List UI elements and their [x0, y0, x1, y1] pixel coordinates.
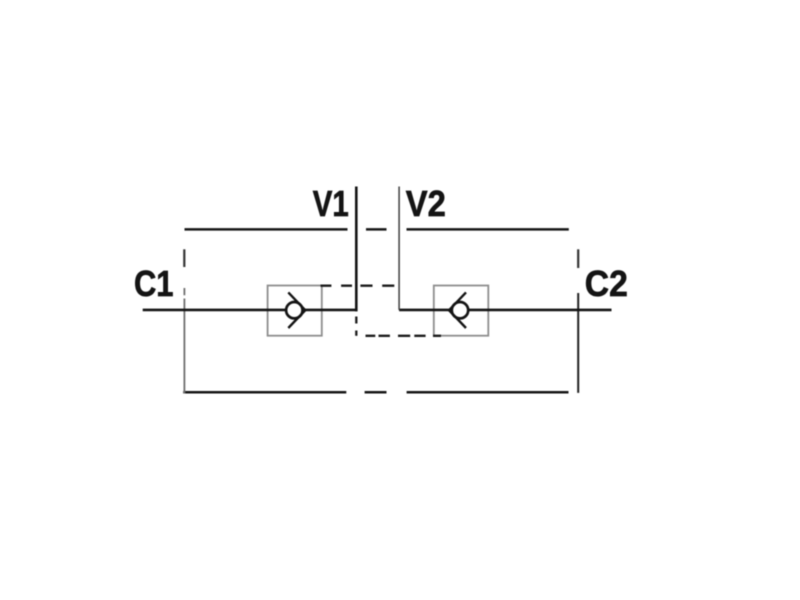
valve body enclosure right edge lower segment — [577, 293, 579, 393]
wire: V2 line — [398, 187, 400, 310]
svg-text:V1: V1 — [313, 183, 349, 224]
svg-text:C2: C2 — [585, 263, 628, 304]
svg-text:V2: V2 — [406, 183, 446, 224]
wire: C1 port line — [143, 309, 358, 312]
check valve CV2 body square — [434, 286, 489, 336]
valve body enclosure top edge (dashed) — [185, 228, 569, 231]
valve body enclosure right edge upper dash — [577, 249, 579, 268]
check valve CV1 body square — [268, 286, 322, 336]
wire: C2 port line — [399, 309, 611, 312]
pilot line from V1 to CV2 (dashed) — [356, 317, 441, 336]
pilot line from V2 to CV1 (dashed) — [321, 285, 395, 287]
check valve CV2 ball — [452, 302, 468, 318]
check valve CV2 seat — [449, 292, 466, 328]
valve body enclosure left edge lower segment — [183, 288, 185, 393]
valve body enclosure bottom edge (dashed) — [183, 391, 568, 394]
wire: V1 line — [355, 187, 358, 312]
check valve CV1 seat — [288, 292, 305, 328]
valve body enclosure left edge upper dash — [183, 249, 185, 267]
svg-text:C1: C1 — [134, 263, 174, 304]
check valve CV1 ball — [286, 302, 302, 318]
